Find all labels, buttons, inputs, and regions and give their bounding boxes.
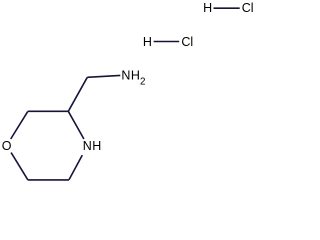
svg-text:O: O — [2, 139, 12, 153]
svg-text:Cl: Cl — [242, 1, 254, 15]
bond N4-C5 (ring lower-right) — [69, 155, 82, 180]
bond C2-C3 (ring top edge) — [28, 110, 69, 112]
svg-text:Cl: Cl — [181, 35, 193, 49]
bond C3-CH2 (exocyclic) — [68, 77, 87, 111]
bond CH2-NH2 — [87, 75, 120, 77]
svg-text:2: 2 — [140, 77, 145, 88]
molecule HCl 2: bond H-Cl — [154, 41, 180, 43]
svg-text:NH: NH — [121, 69, 140, 83]
bond C6-O (ring lower-left) — [11, 153, 28, 180]
molecule HCl 1: bond H-Cl — [214, 7, 240, 9]
bond C5-C6 (ring bottom edge) — [28, 179, 69, 181]
svg-text:H: H — [143, 35, 152, 49]
bond C3-N4 (ring upper-right) — [68, 111, 84, 139]
svg-text:H: H — [203, 1, 212, 15]
bond O-C2 (ring upper-left) — [11, 111, 28, 139]
svg-text:NH: NH — [83, 139, 102, 153]
